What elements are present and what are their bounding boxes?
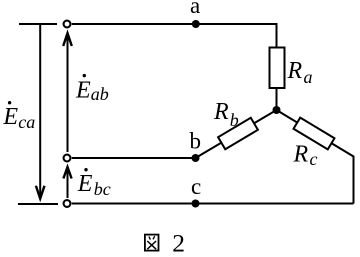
svg-text:2: 2 (172, 229, 185, 257)
svg-text:c: c (310, 149, 318, 169)
svg-text:a: a (304, 67, 313, 87)
svg-text:R: R (293, 141, 309, 167)
label E_ab (75, 74, 109, 104)
node c (192, 200, 200, 208)
label R_c (293, 141, 318, 169)
svg-text:bc: bc (94, 179, 111, 199)
arrow E_ca (phasor, pointing down) (36, 24, 45, 199)
wire R_a to neutral (276, 88, 278, 110)
wire a-line top (72, 24, 277, 48)
terminal B (open circle) (64, 155, 71, 162)
resistor R_b (218, 118, 258, 149)
label E_ca (2, 101, 35, 132)
wire b-line (72, 157, 196, 159)
wire c branch right side (277, 110, 354, 204)
svg-text:ab: ab (91, 84, 109, 104)
arrow E_ab (phasor, pointing up) (63, 33, 72, 152)
node a (192, 20, 200, 28)
caption figure 2 (145, 229, 185, 257)
node b (192, 154, 200, 162)
svg-text:c: c (191, 174, 201, 199)
arrow E_bc (phasor, pointing up) (63, 167, 71, 198)
wire bottom-left tick (18, 203, 58, 205)
svg-text:E: E (77, 171, 93, 197)
wire b branch diagonal (196, 110, 277, 158)
terminal A (open circle) (64, 21, 71, 28)
label R_a (287, 58, 313, 87)
svg-text:b: b (190, 128, 202, 153)
wire top-left tick (19, 23, 57, 25)
svg-text:E: E (2, 104, 18, 130)
resistor R_c (294, 118, 335, 150)
svg-text:R: R (287, 58, 303, 84)
node neutral (star point) (273, 106, 281, 114)
wire c-line bottom (72, 203, 354, 205)
label E_bc (77, 168, 111, 199)
svg-text:ca: ca (18, 112, 35, 132)
svg-text:E: E (75, 78, 91, 104)
resistor R_a (270, 48, 285, 89)
svg-text:b: b (230, 110, 239, 130)
label R_b (213, 99, 239, 130)
terminal C (open circle) (64, 200, 71, 207)
svg-text:a: a (190, 0, 200, 18)
svg-text:R: R (213, 99, 229, 125)
